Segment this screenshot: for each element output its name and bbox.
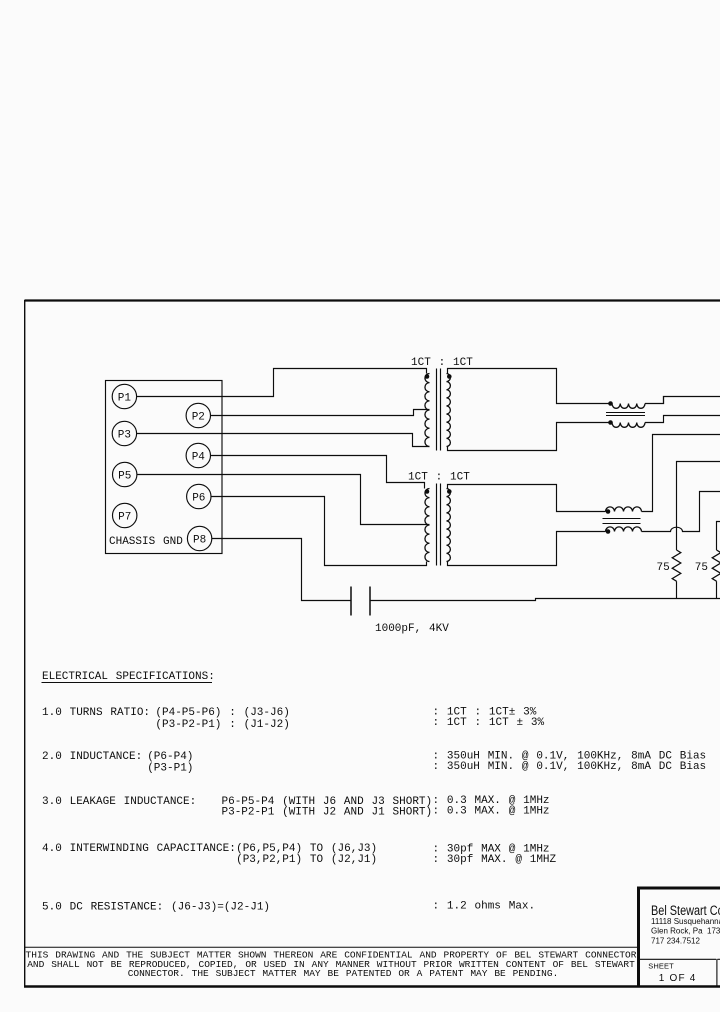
- svg-text:CONNECTOR. THE SUBJECT MATTER: CONNECTOR. THE SUBJECT MATTER MAY BE PAT…: [128, 968, 559, 979]
- transformer T1 primary phase dot: [425, 374, 430, 379]
- transformer T2 core: [437, 484, 441, 566]
- svg-text:: 30pf MAX. @ 1MHZ: : 30pf MAX. @ 1MHZ: [433, 854, 557, 866]
- resistor R1: [672, 550, 681, 581]
- svg-text:: 1.2 ohms Max.: : 1.2 ohms Max.: [433, 901, 536, 913]
- pin P5: [113, 462, 137, 486]
- wire choke L1 bottom output: [645, 416, 720, 423]
- svg-text:CHASSIS GND: CHASSIS GND: [109, 536, 183, 548]
- svg-text:(P4-P5-P6) : (J3-J6): (P4-P5-P6) : (J3-J6): [155, 707, 289, 719]
- pin P3: [112, 421, 136, 445]
- wire T2 secondary bottom to choke L2 bottom: [448, 532, 606, 566]
- pin P7: [113, 503, 137, 527]
- svg-text:P6: P6: [192, 492, 205, 504]
- choke L1 bottom winding: [612, 423, 645, 428]
- transformer T1 primary winding: [425, 374, 430, 447]
- svg-text:11118 Susquehanna Trail South: 11118 Susquehanna Trail South: [651, 917, 720, 926]
- svg-text:Glen Rock, Pa 17327: Glen Rock, Pa 17327: [651, 926, 720, 935]
- connector box P: [106, 381, 223, 554]
- svg-text:4.0 INTERWINDING CAPACITANCE:: 4.0 INTERWINDING CAPACITANCE:: [42, 843, 236, 855]
- wire resistor R1 bottom lead: [676, 581, 678, 598]
- svg-text:ELECTRICAL SPECIFICATIONS:: ELECTRICAL SPECIFICATIONS:: [42, 671, 215, 683]
- choke L1 core: [606, 413, 645, 416]
- svg-text:Bel Stewart Connector: Bel Stewart Connector: [651, 903, 720, 918]
- transformer T1 secondary winding: [447, 374, 451, 447]
- svg-text:: 0.3 MAX. @ 1MHz: : 0.3 MAX. @ 1MHz: [433, 806, 550, 818]
- disclaimer box: [25, 947, 638, 979]
- resistor R2: [712, 550, 720, 581]
- choke L1 bottom dot: [608, 420, 613, 425]
- wire node A resistor R1 top feed: [677, 462, 720, 551]
- wire choke L2 bottom output with hop: [642, 492, 720, 532]
- svg-text:P4: P4: [192, 451, 206, 463]
- wire P2 to T1 primary center tap: [211, 410, 430, 416]
- svg-text:(P3,P2,P1) TO (J2,J1): (P3,P2,P1) TO (J2,J1): [236, 854, 377, 866]
- spec item 3 leakage inductance: [42, 795, 550, 819]
- svg-text:5.0 DC RESISTANCE: (J6-J3)=(J2: 5.0 DC RESISTANCE: (J6-J3)=(J2-J1): [42, 902, 270, 914]
- spec item 4 interwinding capacitance: [42, 843, 557, 866]
- spec item 2 inductance: [42, 751, 706, 775]
- transformer T2 primary phase dot: [425, 489, 430, 494]
- svg-text:1CT : 1CT: 1CT : 1CT: [411, 357, 473, 369]
- wire T1 secondary bottom to choke L1 bottom: [448, 423, 613, 451]
- spec item 5 dc resistance: [42, 901, 535, 914]
- svg-text:(P3-P1): (P3-P1): [147, 763, 193, 775]
- svg-text:1.0 TURNS RATIO:: 1.0 TURNS RATIO:: [42, 707, 150, 719]
- svg-text:1CT : 1CT: 1CT : 1CT: [408, 471, 470, 483]
- svg-text:SHEET: SHEET: [648, 962, 674, 971]
- svg-text:P7: P7: [118, 511, 131, 523]
- svg-text:75: 75: [695, 562, 708, 574]
- svg-text:1000pF, 4KV: 1000pF, 4KV: [375, 623, 449, 635]
- wire resistor R2 bottom lead: [716, 581, 718, 598]
- wire P5 to T2 primary center tap: [137, 475, 430, 525]
- pin P2: [186, 403, 210, 427]
- transformer T2 secondary phase dot: [447, 489, 452, 494]
- svg-text:P1: P1: [118, 392, 132, 404]
- wire P6 to T2 primary bottom: [211, 497, 427, 566]
- pin P6: [187, 484, 211, 508]
- svg-text:P2: P2: [192, 411, 205, 423]
- wire P4 to T2 primary top: [211, 456, 425, 489]
- svg-text:3.0 LEAKAGE INDUCTANCE:: 3.0 LEAKAGE INDUCTANCE:: [42, 796, 196, 808]
- svg-text:: 1CT : 1CT ± 3%: : 1CT : 1CT ± 3%: [433, 717, 545, 729]
- svg-text:(P6-P4): (P6-P4): [147, 751, 193, 763]
- choke L2 core: [603, 519, 641, 524]
- drawing frame border: [24, 300, 720, 987]
- choke L2 bottom winding: [606, 527, 642, 532]
- svg-text:P5: P5: [118, 470, 131, 482]
- wire ground rail: [371, 599, 720, 601]
- pin P8: [187, 526, 211, 550]
- wire T1 secondary top to choke L1 top: [448, 369, 613, 404]
- transformer T2 primary winding: [425, 489, 430, 562]
- svg-text:P3-P2-P1 (WITH J2 AND J1 SHORT: P3-P2-P1 (WITH J2 AND J1 SHORT): [222, 807, 433, 819]
- pin P1: [112, 384, 136, 408]
- svg-text:: 350uH MIN. @ 0.1V, 100KHz,: : 350uH MIN. @ 0.1V, 100KHz, 8mA DC Bias: [433, 761, 707, 773]
- wire resistor R2 top feed: [717, 522, 720, 551]
- wire choke L1 top output: [645, 397, 720, 404]
- transformer T1 core: [437, 369, 441, 451]
- svg-text:(P3-P2-P1) : (J1-J2): (P3-P2-P1) : (J1-J2): [155, 719, 289, 731]
- choke L2 top dot: [606, 509, 611, 514]
- choke L2 top winding: [606, 507, 642, 512]
- spec item 1 turns ratio: [42, 707, 545, 731]
- wire P3 to T1 primary bottom: [137, 434, 430, 447]
- choke L2 bottom dot: [606, 529, 611, 534]
- choke L1 top dot: [608, 401, 613, 406]
- wire choke L2 top output: [642, 435, 720, 512]
- wire P1 to T1 primary top: [137, 369, 427, 397]
- choke L1 top winding: [612, 404, 645, 409]
- svg-text:P3: P3: [118, 429, 131, 441]
- wire T2 secondary top to choke L2 top: [448, 485, 606, 512]
- transformer T2 secondary winding: [447, 489, 451, 562]
- title block: [637, 887, 720, 986]
- wire P8 to capacitor C1: [212, 539, 351, 601]
- svg-text:75: 75: [657, 562, 670, 574]
- capacitor C1: [351, 587, 370, 616]
- transformer T1 secondary phase dot: [447, 374, 452, 379]
- electrical specifications heading: [42, 671, 215, 683]
- svg-text:P8: P8: [193, 534, 206, 546]
- pin P4: [186, 443, 210, 467]
- svg-text:2.0 INDUCTANCE:: 2.0 INDUCTANCE:: [42, 751, 142, 763]
- svg-text:717 234.7512: 717 234.7512: [651, 936, 700, 945]
- svg-text:1 OF 4: 1 OF 4: [659, 973, 697, 984]
